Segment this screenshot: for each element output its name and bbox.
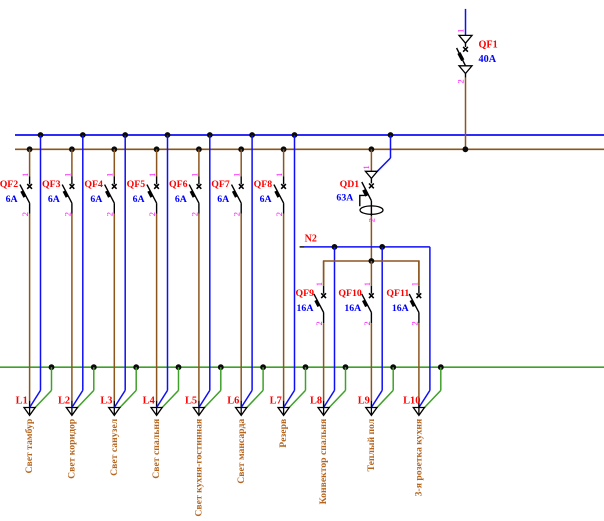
svg-text:N2: N2 xyxy=(305,234,317,245)
junction: L8 PE tap on PE bus xyxy=(343,364,349,370)
junction: L1 neutral tap on N bus xyxy=(38,132,44,138)
wire: QD1 pin2 down (brown) xyxy=(370,216,372,261)
wire: QD1 output header (brown) xyxy=(324,261,419,286)
wire: N bus to L3 (blue) xyxy=(124,135,126,390)
wire: PE bus to L1 (green) xyxy=(51,367,53,390)
breaker QF6 symbol xyxy=(189,177,201,214)
junction: L4 PE tap on PE bus xyxy=(176,364,182,370)
wire: PE bus to L3 (green) xyxy=(135,367,137,390)
svg-text:L4: L4 xyxy=(143,395,155,406)
svg-text:Резерв: Резерв xyxy=(278,419,289,448)
wire: N bus (blue horizontal) xyxy=(15,134,604,136)
svg-text:Свет тамбур: Свет тамбур xyxy=(24,419,35,474)
svg-text:Свет мансарда: Свет мансарда xyxy=(236,419,247,484)
junction: QF6 phase tap on L bus xyxy=(196,146,202,152)
wire: QF4 to L3 arrow (brown) xyxy=(113,214,115,401)
wire: N bus to L2 (blue) xyxy=(82,135,84,390)
junction: L2 PE tap on PE bus xyxy=(91,364,97,370)
wire: header to QF9 (brown) xyxy=(323,261,325,286)
node L3 arrow xyxy=(109,408,120,416)
junction: L8 neutral tap on N2 xyxy=(332,244,338,250)
wire: N bus to QD1 (blue) xyxy=(390,135,392,158)
junction: QF5 phase tap on L bus xyxy=(154,146,160,152)
wire: QF1 pin2 to L bus (brown) xyxy=(465,78,467,150)
node L5 arrow xyxy=(193,408,204,416)
svg-text:QF1: QF1 xyxy=(479,39,498,50)
svg-text:1: 1 xyxy=(62,173,72,177)
wire: L bus to QF7 (brown) xyxy=(240,149,242,176)
svg-text:2: 2 xyxy=(105,212,115,216)
svg-text:6A: 6A xyxy=(260,194,272,205)
wire: L bus to QF2 (brown) xyxy=(29,149,31,176)
junction: L5 PE tap on PE bus xyxy=(218,364,224,370)
node L10 arrow xyxy=(413,408,424,416)
svg-text:16A: 16A xyxy=(344,303,361,314)
breaker QF4 symbol xyxy=(105,177,117,214)
wire: QF10 to L9 arrow (brown) xyxy=(370,323,372,401)
svg-text:QF2: QF2 xyxy=(0,179,18,190)
svg-text:2: 2 xyxy=(409,321,419,325)
svg-text:2: 2 xyxy=(314,321,324,325)
wire: L bus to QD1 (brown) xyxy=(370,149,372,171)
junction: L7 PE tap on PE bus xyxy=(303,364,309,370)
junction: L10 PE tap on PE bus xyxy=(438,364,444,370)
wire: PE bus to L9 (green) xyxy=(392,367,394,390)
wire: PE bus to L8 (green) xyxy=(345,367,347,390)
wire: QF5 to L4 arrow (brown) xyxy=(156,214,158,401)
svg-text:6A: 6A xyxy=(175,194,187,205)
wire: PE bus (green horizontal) xyxy=(0,366,604,368)
wire: L bus (brown horizontal) xyxy=(15,148,604,150)
junction: L2 neutral tap on N bus xyxy=(80,132,86,138)
wire: supply to QF1 (blue) xyxy=(465,9,467,36)
svg-text:Свет кухня-гостинная: Свет кухня-гостинная xyxy=(194,419,205,517)
junction: L9 PE tap on PE bus xyxy=(390,364,396,370)
svg-text:1: 1 xyxy=(409,282,419,286)
svg-text:2: 2 xyxy=(20,212,30,216)
wire: PE bus to L5 (green) xyxy=(220,367,222,390)
breaker QF3 symbol xyxy=(62,177,74,214)
breaker QF9 symbol xyxy=(314,286,326,323)
svg-text:3-я розетка кухня: 3-я розетка кухня xyxy=(414,419,425,497)
svg-text:2: 2 xyxy=(232,212,242,216)
junction: QF3 phase tap on L bus xyxy=(69,146,75,152)
junction: QD1 output node xyxy=(369,258,375,264)
junction: QF2 phase tap on L bus xyxy=(27,146,33,152)
junction: QF8 phase tap on L bus xyxy=(281,146,287,152)
svg-text:63A: 63A xyxy=(336,193,353,204)
junction: QF1 on L bus xyxy=(463,146,469,152)
breaker QF7 symbol xyxy=(232,177,244,214)
wire: N2 right drop to L10 (blue) xyxy=(429,247,431,391)
svg-text:QF8: QF8 xyxy=(254,179,273,190)
wire: N bus to L7 (blue) xyxy=(294,135,296,390)
svg-text:L2: L2 xyxy=(58,395,70,406)
svg-text:2: 2 xyxy=(189,212,199,216)
svg-text:L6: L6 xyxy=(227,395,239,406)
wire: N bus to L1 (blue) xyxy=(40,135,42,390)
wire: PE bus to L7 (green) xyxy=(305,367,307,390)
breaker QF5 symbol xyxy=(147,177,159,214)
svg-text:6A: 6A xyxy=(6,194,18,205)
svg-text:1: 1 xyxy=(314,282,324,286)
junction: QD1 phase tap on L bus xyxy=(369,146,375,152)
wire: PE bus to L10 (green) xyxy=(440,367,442,390)
svg-text:2: 2 xyxy=(456,79,466,83)
svg-text:QF6: QF6 xyxy=(169,179,188,190)
svg-text:1: 1 xyxy=(362,282,372,286)
wire: QF11 to L10 arrow (brown) xyxy=(418,323,420,401)
junction: QF7 phase tap on L bus xyxy=(238,146,244,152)
svg-text:QF10: QF10 xyxy=(338,288,362,299)
svg-text:Свет санузел: Свет санузел xyxy=(109,418,120,476)
breaker QF8 symbol xyxy=(274,177,286,214)
svg-text:QF3: QF3 xyxy=(42,179,61,190)
wire: header to QF11 (brown) xyxy=(418,261,420,286)
svg-text:2: 2 xyxy=(274,212,284,216)
junction: L4 neutral tap on N bus xyxy=(165,132,171,138)
wire: L bus to QF4 (brown) xyxy=(113,149,115,176)
svg-text:L1: L1 xyxy=(16,395,28,406)
svg-text:1: 1 xyxy=(361,165,371,169)
svg-text:L10: L10 xyxy=(403,395,420,406)
junction: L6 PE tap on PE bus xyxy=(260,364,266,370)
svg-text:2: 2 xyxy=(62,212,72,216)
wire: QF3 to L2 arrow (brown) xyxy=(71,214,73,401)
node L9 arrow xyxy=(366,408,377,416)
junction: L3 PE tap on PE bus xyxy=(133,364,139,370)
wire: L bus to QF3 (brown) xyxy=(71,149,73,176)
svg-text:QF11: QF11 xyxy=(386,288,409,299)
breaker QF10 symbol xyxy=(362,286,374,323)
svg-text:6A: 6A xyxy=(133,194,145,205)
node L7 arrow xyxy=(278,408,289,416)
rcd QD1 symbol xyxy=(360,171,383,216)
svg-text:2: 2 xyxy=(147,212,157,216)
node L4 arrow xyxy=(151,408,162,416)
svg-text:6A: 6A xyxy=(48,194,60,205)
svg-text:Конвектор спальня: Конвектор спальня xyxy=(318,419,329,505)
svg-text:1: 1 xyxy=(147,173,157,177)
svg-text:L9: L9 xyxy=(358,395,370,406)
junction: QF4 phase tap on L bus xyxy=(111,146,117,152)
svg-text:6A: 6A xyxy=(90,194,102,205)
svg-text:16A: 16A xyxy=(392,303,409,314)
wire: N bus to L6 (blue) xyxy=(251,135,253,390)
wire: L bus to QF5 (brown) xyxy=(156,149,158,176)
svg-text:40A: 40A xyxy=(479,54,497,65)
svg-text:2: 2 xyxy=(362,321,372,325)
svg-text:1: 1 xyxy=(105,173,115,177)
svg-text:1: 1 xyxy=(456,29,466,33)
wire: QF8 to L7 arrow (brown) xyxy=(283,214,285,401)
svg-text:1: 1 xyxy=(232,173,242,177)
junction: L7 neutral tap on N bus xyxy=(292,132,298,138)
svg-text:Свет спальня: Свет спальня xyxy=(151,419,162,479)
svg-text:L5: L5 xyxy=(185,395,197,406)
svg-text:Свет коридор: Свет коридор xyxy=(67,419,78,479)
wire: N2 to L8 (blue) xyxy=(334,247,336,391)
svg-text:6A: 6A xyxy=(217,194,229,205)
wire: L bus to QF8 (brown) xyxy=(283,149,285,176)
node L1 arrow xyxy=(24,408,35,416)
junction: QD1 neutral tap on N bus xyxy=(388,132,394,138)
svg-text:L3: L3 xyxy=(100,395,112,406)
breaker QF2 symbol xyxy=(20,177,32,214)
svg-text:L7: L7 xyxy=(270,395,282,406)
breaker QF11 symbol xyxy=(409,286,421,323)
wire: QF6 to L5 arrow (brown) xyxy=(198,214,200,401)
svg-text:1: 1 xyxy=(189,173,199,177)
wire: N bus to L5 (blue) xyxy=(209,135,211,390)
wire: N2 to L9 (blue) xyxy=(381,247,383,391)
svg-text:1: 1 xyxy=(20,173,30,177)
wire: QF9 to L8 arrow (brown) xyxy=(323,323,325,401)
svg-text:QF9: QF9 xyxy=(295,288,314,299)
breaker QF1 symbol xyxy=(457,35,472,77)
node L2 arrow xyxy=(66,408,77,416)
wire: PE bus to L4 (green) xyxy=(178,367,180,390)
node N2 tie xyxy=(300,246,305,248)
junction: L5 neutral tap on N bus xyxy=(207,132,213,138)
junction: L1 PE tap on PE bus xyxy=(49,364,55,370)
svg-text:1: 1 xyxy=(274,173,284,177)
svg-text:L8: L8 xyxy=(310,395,322,406)
svg-text:QF4: QF4 xyxy=(84,179,103,190)
wire: PE bus to L2 (green) xyxy=(93,367,95,390)
wire: QF2 to L1 arrow (brown) xyxy=(29,214,31,401)
junction: L6 neutral tap on N bus xyxy=(249,132,255,138)
wire: N bus to L4 (blue) xyxy=(167,135,169,390)
svg-text:QF7: QF7 xyxy=(211,179,230,190)
junction: L3 neutral tap on N bus xyxy=(122,132,128,138)
svg-text:QD1: QD1 xyxy=(340,179,360,190)
svg-text:Теплый пол: Теплый пол xyxy=(366,418,377,471)
node L6 arrow xyxy=(236,408,247,416)
wire: PE bus to L6 (green) xyxy=(262,367,264,390)
svg-text:QF5: QF5 xyxy=(127,179,146,190)
wire: header to QF10 (brown) xyxy=(370,261,372,286)
node L8 arrow xyxy=(318,408,329,416)
wire: L bus to QF6 (brown) xyxy=(198,149,200,176)
junction: L9 neutral tap on N2 xyxy=(379,244,385,250)
wire: QF7 to L6 arrow (brown) xyxy=(240,214,242,401)
svg-text:16A: 16A xyxy=(297,303,314,314)
wire: N2 bus (blue) xyxy=(304,246,430,248)
